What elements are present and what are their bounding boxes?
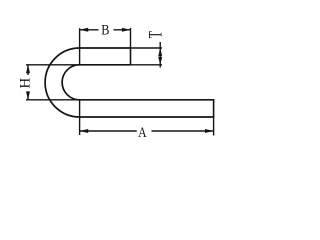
dimension A: right arrowhead <box>205 129 214 133</box>
part outline: top edge of upper leg <box>79 47 130 49</box>
extension line: T top (top edge extended right) <box>131 47 163 49</box>
dimension T: dimension line <box>159 42 161 68</box>
dimension H: dimension line upper segment <box>27 65 29 75</box>
extension line: T bottom (bottom edge extended right) <box>131 64 163 66</box>
svg-text:B: B <box>101 21 109 37</box>
dimension B: left arrowhead <box>80 28 89 32</box>
part outline: inner bend arc <box>62 65 79 100</box>
dimension B: dimension line left segment <box>80 29 99 31</box>
part outline: end face of lower leg <box>213 99 215 117</box>
dimension A: label A <box>138 123 147 140</box>
dimension B: dimension line right segment <box>114 29 131 31</box>
dimension A: right extension line <box>213 117 215 136</box>
dimension H: dimension line lower segment <box>27 92 29 100</box>
dimension B: left extension line <box>79 28 81 65</box>
dimension T: lower arrowhead <box>158 57 162 65</box>
dimension A: dimension line right segment <box>152 130 214 132</box>
dimension T: label T (rotated) <box>146 31 166 38</box>
svg-text:H: H <box>18 78 34 89</box>
extension line: B right (above upper leg end) <box>130 28 132 48</box>
dimension A: left arrowhead <box>80 129 89 133</box>
part outline: bottom edge of upper leg <box>79 64 130 66</box>
part outline: end face of upper leg <box>130 47 132 65</box>
dimension H: lower arrowhead <box>26 91 30 99</box>
part outline: bottom edge of lower leg <box>79 116 213 118</box>
dimension T: upper arrowhead <box>158 48 162 56</box>
extension line: H top (inner top edge extended left) <box>26 64 79 66</box>
dimension A: left extension line <box>79 100 81 135</box>
dimension B: right arrowhead <box>122 28 131 32</box>
part outline: outer bend arc <box>45 48 79 117</box>
dimension B: label B <box>101 21 109 37</box>
svg-text:T: T <box>146 31 166 38</box>
dimension A: dimension line left segment <box>80 130 137 132</box>
svg-text:A: A <box>138 123 147 140</box>
extension line: H bottom (inner bottom edge extended left) <box>26 99 79 101</box>
part outline: top edge of lower leg <box>79 99 213 101</box>
dimension H: upper arrowhead <box>26 65 30 73</box>
